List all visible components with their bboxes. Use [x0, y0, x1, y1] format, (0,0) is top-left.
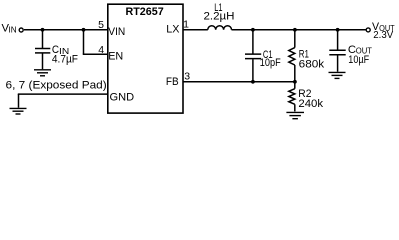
wire EN branch vertical	[83, 30, 85, 54]
wire C1 bottom lead	[252, 59, 254, 82]
svg-text:LX: LX	[166, 24, 180, 36]
ground COUT	[329, 72, 346, 78]
svg-text:4: 4	[98, 44, 104, 56]
svg-text:VIN: VIN	[108, 26, 125, 38]
wire R2 top lead	[294, 82, 296, 89]
wire EN branch to pin 4	[83, 53, 108, 55]
wire output rail	[232, 29, 367, 31]
wire C1 top lead	[252, 30, 254, 54]
svg-text:RT2657: RT2657	[126, 6, 164, 18]
wire VIN input rail to pin 5	[24, 29, 108, 31]
svg-text:10µF: 10µF	[348, 54, 369, 66]
svg-text:1: 1	[183, 18, 189, 30]
wire CIN top lead	[42, 30, 44, 48]
wire COUT top lead	[337, 30, 339, 50]
wire R1 top lead	[294, 30, 296, 48]
svg-text:4.7µF: 4.7µF	[52, 54, 78, 66]
resistor R1	[289, 48, 295, 65]
svg-text:IN: IN	[9, 25, 17, 35]
capacitor C1	[245, 54, 261, 59]
svg-text:3: 3	[184, 70, 190, 82]
junction C1 bottom on FB rail	[251, 80, 255, 84]
wire COUT bottom lead	[337, 55, 339, 71]
junction C1 top	[251, 28, 255, 32]
svg-text:2.2µH: 2.2µH	[204, 11, 235, 23]
svg-text:680k: 680k	[299, 59, 325, 71]
capacitor COUT label	[348, 44, 372, 56]
svg-text:GND: GND	[110, 91, 135, 103]
wire R2 bottom lead	[294, 104, 296, 111]
ground CIN	[34, 70, 51, 76]
svg-text:5: 5	[98, 19, 104, 31]
svg-text:FB: FB	[166, 76, 179, 88]
wire GND pin to ground	[18, 94, 108, 108]
svg-text:6, 7 (Exposed Pad): 6, 7 (Exposed Pad)	[6, 79, 107, 91]
resistor R2	[289, 89, 295, 105]
capacitor CIN	[35, 49, 50, 53]
junction EN tap	[82, 28, 86, 32]
inductor L1	[208, 26, 232, 30]
junction COUT top	[336, 28, 340, 32]
svg-text:EN: EN	[108, 50, 123, 62]
node VOUT label	[372, 21, 395, 33]
wire LX pin 1 to inductor	[183, 29, 208, 31]
capacitor COUT	[329, 50, 345, 55]
svg-text:10pF: 10pF	[260, 57, 281, 69]
ground exposed pad	[10, 108, 27, 114]
capacitor CIN label	[52, 44, 69, 56]
junction CIN tap	[41, 28, 45, 32]
node VIN terminal circle	[19, 28, 23, 32]
wire FB pin 3 rail	[183, 81, 295, 83]
ground R2	[286, 112, 304, 118]
wire CIN bottom lead	[42, 53, 44, 69]
svg-text:2.3V: 2.3V	[373, 29, 393, 41]
svg-text:240k: 240k	[298, 98, 323, 110]
junction R1 top	[293, 28, 297, 32]
junction R1 R2 FB node	[293, 80, 297, 84]
wire R1 bottom lead	[294, 65, 296, 82]
op-amp U1 RT2657 box	[108, 4, 183, 113]
node VOUT terminal circle	[366, 28, 370, 32]
node VIN label	[2, 22, 17, 34]
